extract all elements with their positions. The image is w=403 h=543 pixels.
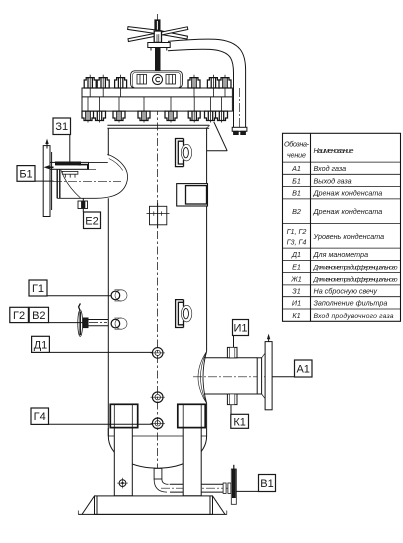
svg-text:Для манометра: Для манометра [313,250,369,259]
svg-text:Дренаж конденсата: Дренаж конденсата [313,207,383,216]
svg-text:К1: К1 [292,311,300,320]
svg-text:Вход продувочного газа: Вход продувочного газа [314,312,394,320]
svg-text:Д1: Д1 [34,339,48,351]
svg-text:Заполнение фильтра: Заполнение фильтра [314,299,388,308]
svg-text:Обозна-: Обозна- [284,140,310,149]
svg-text:Г1: Г1 [32,283,44,295]
svg-text:Дренаж конденсата: Дренаж конденсата [313,189,383,198]
svg-text:А1: А1 [291,164,301,173]
svg-text:А1: А1 [296,364,309,376]
svg-text:Ж1: Ж1 [290,275,302,284]
svg-text:Д1: Д1 [291,250,301,259]
svg-text:И1: И1 [233,323,247,335]
svg-text:Б1: Б1 [292,176,301,185]
svg-text:Уровень конденсата: Уровень конденсата [313,232,385,241]
svg-text:В1: В1 [292,189,301,198]
svg-text:В2: В2 [292,207,301,216]
svg-text:Выход газа: Выход газа [314,176,352,185]
svg-text:Г2: Г2 [13,310,25,322]
svg-text:Для манометра дифференциальног: Для манометра дифференциального [313,276,398,284]
svg-text:На сбросную свечу: На сбросную свечу [314,287,378,296]
svg-text:К1: К1 [233,416,246,428]
svg-text:З1: З1 [292,287,300,296]
svg-text:Вход газа: Вход газа [314,164,347,173]
svg-text:Б1: Б1 [19,169,32,181]
svg-text:Г4: Г4 [34,411,46,423]
svg-text:Е1: Е1 [292,262,301,271]
svg-text:Г1, Г2: Г1, Г2 [287,227,307,236]
svg-text:Г3, Г4: Г3, Г4 [287,237,307,246]
svg-text:З1: З1 [55,121,68,133]
svg-text:Е2: Е2 [85,215,98,227]
svg-text:И1: И1 [292,299,301,308]
svg-text:Для манометра дифференциальног: Для манометра дифференциального [313,263,398,271]
svg-text:чение: чение [287,151,306,160]
svg-text:В1: В1 [260,478,273,490]
svg-text:Наименование: Наименование [314,146,354,155]
svg-text:В2: В2 [32,310,45,322]
